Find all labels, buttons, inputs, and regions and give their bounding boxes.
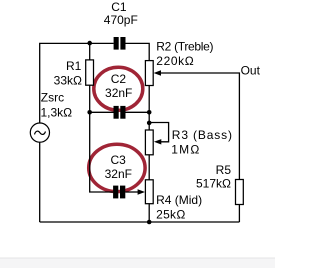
svg-text:1,3kΩ: 1,3kΩ	[41, 105, 73, 119]
svg-text:Zsrc: Zsrc	[41, 91, 64, 105]
svg-text:25kΩ: 25kΩ	[156, 208, 186, 222]
svg-text:R4 (Mid): R4 (Mid)	[156, 193, 202, 207]
svg-text:1MΩ: 1MΩ	[171, 142, 200, 156]
svg-text:33kΩ: 33kΩ	[54, 74, 82, 88]
svg-text:R5: R5	[216, 163, 232, 177]
svg-text:R1: R1	[66, 59, 82, 73]
svg-text:C2: C2	[111, 72, 127, 86]
svg-text:517kΩ: 517kΩ	[196, 177, 231, 191]
svg-text:R2 (Treble): R2 (Treble)	[156, 39, 213, 53]
svg-text:C1: C1	[111, 0, 127, 14]
svg-text:470pF: 470pF	[104, 13, 138, 27]
svg-text:32nF: 32nF	[105, 86, 132, 100]
svg-text:220kΩ: 220kΩ	[156, 54, 194, 68]
svg-text:C3: C3	[111, 153, 127, 167]
svg-text:Out: Out	[241, 64, 261, 78]
svg-text:32nF: 32nF	[105, 167, 132, 181]
svg-text:R3 (Bass): R3 (Bass)	[172, 128, 233, 142]
